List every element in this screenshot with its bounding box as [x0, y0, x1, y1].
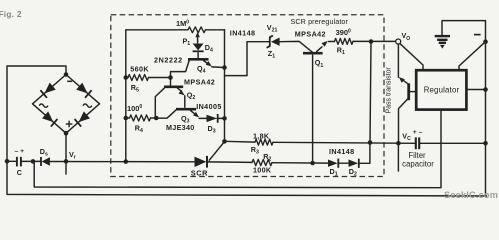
svg-text:100K: 100K	[253, 165, 272, 174]
svg-text:C: C	[17, 168, 22, 177]
svg-text:IN4148: IN4148	[230, 28, 256, 37]
svg-text:Fig. 2: Fig. 2	[0, 10, 22, 19]
svg-text:2N2222: 2N2222	[154, 56, 183, 65]
svg-text:+ –: + –	[413, 129, 423, 136]
svg-text:capacitor: capacitor	[402, 159, 434, 168]
svg-text:IN4005: IN4005	[196, 102, 222, 111]
svg-text:1,8K: 1,8K	[253, 131, 270, 140]
svg-text:MPSA42: MPSA42	[184, 78, 215, 87]
svg-text:SCR preregulator: SCR preregulator	[291, 17, 349, 26]
svg-text:MJE340: MJE340	[166, 123, 195, 132]
svg-text:MPSA42: MPSA42	[295, 30, 326, 39]
svg-text:SeekIC.com: SeekIC.com	[444, 190, 498, 200]
svg-text:– +: – +	[15, 148, 25, 155]
svg-text:560K: 560K	[130, 64, 149, 73]
svg-text:IN4148: IN4148	[329, 147, 355, 156]
svg-text:Pass transistor: Pass transistor	[386, 67, 393, 114]
svg-text:SCR: SCR	[191, 169, 208, 178]
svg-text:Regulator: Regulator	[424, 85, 460, 94]
